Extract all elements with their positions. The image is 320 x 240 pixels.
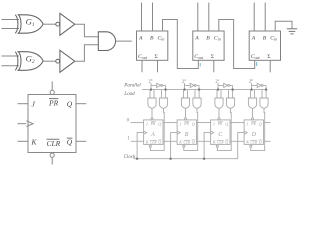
svg-text:PR: PR: [250, 122, 256, 126]
svg-text:Clock: Clock: [124, 155, 136, 160]
wire gate input stubs, stage D: [250, 90, 252, 99]
svg-text:G2: G2: [26, 54, 35, 65]
CLR bubble, stage A: [149, 145, 151, 147]
wire PR stub: [51, 82, 53, 91]
svg-text:Cin: Cin: [270, 36, 277, 42]
overline PR: [49, 98, 58, 100]
junction dot on load line (inverted data), stage D: [265, 88, 267, 90]
flip-flop D pin labels: [245, 122, 261, 145]
XOR gate G2 input wires: [2, 56, 20, 66]
AND gate: [98, 32, 115, 51]
svg-text:Cout: Cout: [138, 54, 148, 60]
inverter U1 bubble: [56, 22, 60, 26]
FA1 sum output wire: [157, 60, 159, 72]
FA1 pin labels: [138, 36, 164, 61]
svg-text:A: A: [194, 36, 199, 42]
junction dot on load line (data), stage C: [217, 88, 219, 90]
FA2 pin labels: [194, 36, 220, 61]
wire clock feed, stage C: [204, 133, 211, 159]
clock chevron, stage A: [144, 131, 147, 134]
PR bubble, stage D: [251, 118, 253, 120]
svg-text:K: K: [212, 139, 216, 144]
svg-text:A: A: [251, 36, 256, 42]
wire gate to PR bubble, stage B: [185, 108, 187, 118]
wire gate input stubs, stage B: [183, 90, 185, 99]
wire Q of C to J of D: [230, 122, 244, 124]
PR bubble, stage C: [218, 118, 220, 120]
full adder FA2 box: [193, 31, 224, 60]
AND gate preset side, stage C: [215, 98, 223, 108]
JK labels: [31, 99, 73, 149]
node 0 input: [127, 118, 144, 123]
junction dot on load line (inverted data), stage A: [164, 88, 166, 90]
svg-text:A: A: [150, 132, 155, 138]
svg-text:J: J: [146, 122, 149, 127]
svg-text:CLR: CLR: [184, 141, 191, 145]
wire gate to PR bubble, stage D: [252, 108, 254, 118]
ground: [287, 29, 297, 34]
svg-text:B: B: [263, 36, 267, 42]
FA2 Cin carry wire from FA3: [219, 20, 255, 69]
svg-text:Cout: Cout: [251, 54, 261, 60]
wire data input drop, stage C: [217, 83, 219, 90]
full adder FA1 box: [137, 31, 168, 60]
svg-text:C: C: [218, 132, 222, 138]
svg-text:Q: Q: [158, 122, 161, 127]
wire data input drop, stage D: [251, 83, 253, 90]
wire data input drop, stage B: [184, 83, 186, 90]
flip-flop B box: [177, 120, 196, 144]
flip-flop C pin labels: [212, 122, 228, 145]
junction dot on load line (inverted data), stage B: [198, 88, 200, 90]
wire CLR stub: [51, 157, 53, 164]
XOR gate G2: [15, 52, 43, 71]
XOR gate G1: [15, 15, 43, 33]
svg-text:Σ: Σ: [155, 54, 159, 60]
register section: [134, 90, 267, 159]
svg-text:Cin: Cin: [214, 36, 221, 42]
wire inverted data, stage A: [163, 84, 166, 86]
FA1 Cin carry wire from FA2: [163, 20, 199, 69]
AND gate preset side, stage A: [148, 98, 156, 108]
register stage B: [169, 78, 210, 160]
flip-flop A pin labels: [145, 122, 161, 145]
svg-text:1: 1: [127, 137, 129, 142]
register stage C: [203, 78, 244, 160]
inverter, stage B: [190, 83, 194, 87]
svg-text:G1: G1: [26, 17, 35, 28]
full adder FA3 box: [249, 31, 280, 60]
XOR gate G1 input wires: [2, 20, 20, 29]
wire data to inverter, stage C: [218, 84, 224, 86]
svg-text:CLR: CLR: [251, 141, 258, 145]
svg-text:Σ: Σ: [211, 54, 215, 60]
wire inverted data, stage B: [196, 84, 199, 86]
svg-text:20: 20: [249, 78, 253, 84]
PR bubble, stage B: [184, 118, 186, 120]
wire J input: [18, 103, 29, 105]
svg-text:Σ: Σ: [267, 54, 271, 60]
FA2 sum output wire: [213, 60, 215, 72]
register stage A: [136, 78, 177, 160]
FA1 Cout output wire: [141, 60, 143, 72]
wire inverter1 to AND: [75, 24, 99, 37]
svg-text:K: K: [245, 139, 249, 144]
svg-text:23: 23: [148, 78, 152, 84]
wire gate input stubs, stage C: [216, 90, 218, 99]
junction dot on load line (data), stage B: [183, 88, 185, 90]
wire clock feed, stage A: [137, 133, 144, 159]
svg-text:J: J: [213, 122, 216, 127]
wire AND output: [116, 40, 132, 42]
junction dot on load line (inverted data), stage C: [231, 88, 233, 90]
node 1 input: [127, 137, 143, 142]
wire Qbar of A to K of B: [163, 140, 177, 142]
wire Q of A to J of B: [163, 122, 177, 124]
inverter, stage C: [224, 83, 228, 87]
svg-text:K: K: [178, 139, 182, 144]
clock chevron: [26, 121, 33, 127]
FA3 input wire A: [253, 3, 255, 32]
wire data to inverter, stage B: [185, 84, 191, 86]
svg-text:PR: PR: [150, 122, 156, 126]
junction dot on load line (data), stage D: [250, 88, 252, 90]
FA3 sum output wire: [269, 60, 271, 72]
AND gate clear side, stage B: [193, 98, 201, 108]
svg-text:CLR: CLR: [150, 141, 157, 145]
inverter U1: [60, 13, 75, 35]
junction dot on load line (data), stage A: [150, 88, 152, 90]
wire inverted data, stage D: [263, 84, 266, 86]
wire gate to CLR bubble, stage B: [184, 108, 198, 150]
svg-text:Cin: Cin: [158, 36, 165, 42]
svg-text:Parallel: Parallel: [123, 84, 141, 89]
svg-text:Q: Q: [192, 122, 195, 127]
wire inverter2 to AND: [75, 45, 99, 61]
clock chevron, stage C: [211, 131, 214, 134]
wire data to inverter, stage A: [151, 84, 157, 86]
wire XOR2 out: [43, 60, 56, 62]
clock chevron, stage B: [177, 131, 180, 134]
wire Qbar output: [76, 140, 86, 142]
inverter, stage A: [157, 83, 161, 87]
junction dot on clock bus, stage B: [169, 158, 171, 160]
inverter, stage D: [257, 83, 261, 87]
svg-text:Cout: Cout: [194, 54, 204, 60]
svg-text:B: B: [185, 132, 189, 138]
FA3 pin labels: [251, 36, 277, 61]
cyan artifact near FA3 Cout: [256, 62, 257, 66]
wire clock input: [18, 123, 27, 125]
wire data to inverter, stage D: [252, 84, 258, 86]
svg-text:B: B: [150, 36, 154, 42]
svg-text:PR: PR: [217, 122, 223, 126]
svg-text:K: K: [145, 139, 149, 144]
wire inverted data, stage C: [230, 84, 233, 86]
cyan artifact near FA2 Cout: [200, 63, 201, 67]
wire Qbar output of D: [264, 140, 271, 142]
inverter U2 bubble: [56, 59, 60, 63]
wire gate to PR bubble, stage C: [218, 108, 220, 118]
flip-flop D box: [244, 120, 263, 144]
CLR bubble, stage D: [250, 145, 252, 147]
wire gate to PR bubble, stage A: [151, 108, 153, 118]
FA3 Cin wire to ground: [275, 21, 292, 31]
svg-text:J: J: [179, 122, 182, 127]
AND gate preset side, stage B: [181, 98, 189, 108]
overline Qbar: [67, 137, 73, 139]
svg-text:B: B: [206, 36, 210, 42]
clock bus: [134, 133, 245, 159]
AND gate clear side, stage C: [226, 98, 234, 108]
svg-text:J: J: [32, 100, 36, 109]
overline CLR: [47, 138, 60, 140]
wire clock feed, stage B: [171, 133, 178, 159]
CLR bubble: [50, 153, 54, 157]
wire Q output: [76, 103, 86, 105]
PR bubble: [50, 90, 54, 94]
flip-flop B pin labels: [178, 122, 194, 145]
svg-text:22: 22: [182, 78, 186, 84]
label Parallel Load: [123, 84, 141, 97]
FA2 input wire A: [197, 3, 199, 32]
inverter U2: [60, 50, 75, 72]
register stage D: [244, 78, 270, 151]
FA2 input wire B: [208, 3, 210, 32]
FA3 input wire B: [264, 3, 266, 32]
wire gate to CLR bubble, stage D: [251, 108, 265, 150]
svg-text:Load: Load: [123, 92, 135, 97]
wire Qbar of C to K of D: [230, 140, 244, 142]
svg-text:Q: Q: [225, 122, 228, 127]
FA1 input wire A: [141, 3, 143, 32]
AND gate clear side, stage D: [260, 98, 268, 108]
svg-text:Q: Q: [259, 122, 262, 127]
wire gate to CLR bubble, stage A: [150, 108, 164, 150]
svg-text:A: A: [138, 36, 143, 42]
svg-text:Q: Q: [67, 100, 73, 109]
svg-text:Q: Q: [67, 138, 73, 147]
junction dot on clock bus, stage C: [203, 158, 205, 160]
wire gate to CLR bubble, stage C: [217, 108, 231, 150]
svg-text:CLR: CLR: [217, 141, 224, 145]
svg-text:D: D: [251, 132, 257, 138]
svg-text:K: K: [31, 138, 38, 147]
parallel load line: [142, 89, 266, 91]
junction dot on clock bus, stage A: [136, 158, 138, 160]
wire Q output of D: [264, 122, 271, 124]
PR bubble, stage A: [151, 118, 153, 120]
CLR bubble, stage C: [216, 145, 218, 147]
AND gate clear side, stage A: [159, 98, 167, 108]
JK flip-flop box: [28, 95, 76, 153]
svg-text:PR: PR: [48, 99, 59, 108]
wire K input: [18, 140, 29, 142]
flip-flop C box: [211, 120, 230, 144]
svg-text:J: J: [246, 122, 249, 127]
wire XOR1 out: [43, 23, 56, 25]
svg-text:21: 21: [215, 78, 219, 84]
wire Qbar of B to K of C: [197, 140, 211, 142]
flip-flop A box: [144, 120, 163, 144]
FA1 input wire B: [152, 3, 154, 32]
CLR bubble, stage B: [183, 145, 185, 147]
wire Q of B to J of C: [197, 122, 211, 124]
svg-text:PR: PR: [183, 122, 189, 126]
clock chevron, stage D: [244, 131, 247, 134]
wire data input drop, stage A: [150, 83, 152, 90]
AND gate preset side, stage D: [248, 98, 256, 108]
wire gate input stubs, stage A: [149, 90, 151, 99]
svg-text:0: 0: [127, 118, 130, 123]
svg-text:CLR: CLR: [47, 139, 61, 148]
